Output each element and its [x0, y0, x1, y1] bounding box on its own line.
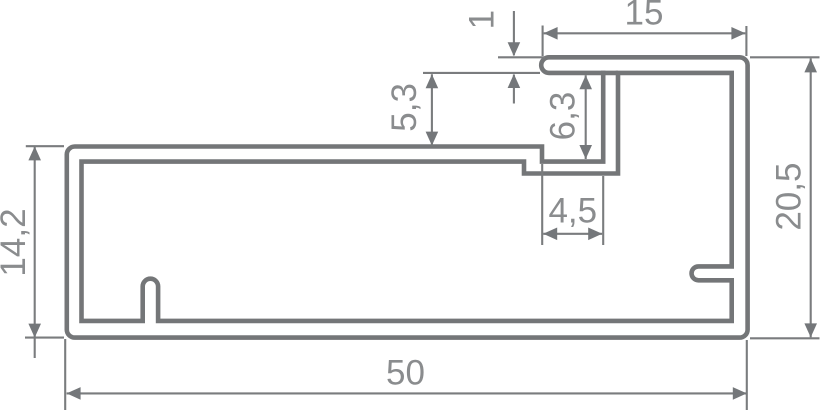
dimension 15 ext left	[542, 26, 544, 57]
dimension 20,5 arrow down	[804, 323, 817, 337]
dimension 1 line upper	[513, 11, 515, 55]
dimension 14,2 arrow down	[28, 324, 41, 338]
dimension 4,5 ext right	[602, 176, 604, 245]
dimension 4,5 arrow left	[543, 228, 557, 241]
dimension 50 arrow right	[733, 387, 747, 400]
dimension 4,5 line	[543, 233, 602, 235]
dimension 1 arrow down	[508, 42, 521, 56]
dimension 4,5 arrow right	[588, 228, 602, 241]
dimension 14,2 ext bottom	[25, 337, 64, 339]
svg-text:20,5: 20,5	[770, 163, 809, 231]
dimension 50 arrow left	[67, 387, 81, 400]
profile outer contour	[67, 57, 748, 337]
dimension 5,3 arrow up	[426, 74, 439, 88]
dimension 6,3 arrow down	[579, 145, 592, 159]
dimension 50 ext right	[746, 340, 748, 410]
dimension 14,2 arrow up	[28, 146, 41, 160]
dimension 50 ext left	[64, 339, 66, 410]
dimension 5,3 arrow down	[426, 132, 439, 146]
dimension 20,5 line	[810, 58, 812, 337]
dimension 1 ext top	[498, 56, 545, 58]
dimension 15 arrow left	[544, 27, 558, 40]
svg-text:15: 15	[625, 0, 664, 32]
dimension 6,3 arrow up	[579, 75, 592, 89]
svg-text:5,3: 5,3	[385, 83, 424, 132]
profile inner contour (cavity with bump and tab)	[82, 73, 732, 321]
dimension 1 line lower	[513, 75, 515, 104]
svg-text:50: 50	[386, 354, 425, 393]
dimension 20,5 ext top	[750, 56, 820, 58]
dimension 20,5 arrow up	[804, 58, 817, 72]
dimension 14,2 ext top	[26, 145, 64, 147]
dimension 14,2 line	[34, 146, 36, 358]
svg-text:6,3: 6,3	[544, 92, 583, 141]
dimension 4,5 ext left	[541, 164, 543, 245]
dimension 15 line	[544, 32, 746, 34]
svg-text:14,2: 14,2	[0, 208, 33, 276]
dimension 50 line	[67, 392, 747, 394]
dimension 6,3 line	[585, 75, 587, 159]
svg-text:4,5: 4,5	[548, 191, 597, 230]
wall root segment (continuous underside line)	[601, 71, 618, 76]
dimension 5,3 line	[431, 74, 433, 145]
dimension 15 ext right	[745, 26, 747, 56]
dimension 1 arrow up	[508, 74, 521, 88]
dimension 20,5 ext bottom	[750, 337, 820, 339]
dimension 15 arrow right	[731, 27, 745, 40]
dimension 5,3 ext top	[423, 72, 540, 74]
svg-text:1: 1	[463, 10, 502, 29]
